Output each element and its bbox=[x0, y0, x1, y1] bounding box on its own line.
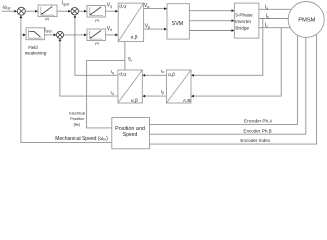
wire V_beta bbox=[144, 28, 165, 30]
svg-text:α,β: α,β bbox=[168, 72, 175, 78]
arrow SVM out1 into bridge bbox=[232, 9, 235, 12]
wire SVM out1 bbox=[189, 10, 231, 12]
wire tap Ib down bbox=[194, 19, 263, 76]
svg-text:θe: θe bbox=[128, 57, 132, 63]
wire mechanical speed feedback bbox=[21, 18, 112, 142]
svg-text:Position and: Position and bbox=[115, 126, 145, 132]
wire field weakening input stub bbox=[21, 34, 24, 36]
arrow SVM out3 into bridge bbox=[232, 29, 235, 32]
arrow S1 up from speed feedback bbox=[20, 15, 23, 18]
svg-text:α,β: α,β bbox=[131, 34, 138, 40]
wire current Ia bbox=[259, 8, 291, 10]
svg-text:d,q: d,q bbox=[119, 72, 126, 78]
wire current Ic bbox=[259, 27, 290, 29]
arrow Vbeta into SVM bbox=[164, 28, 167, 31]
block PI_q current controller bbox=[87, 6, 106, 18]
arrow into FW bbox=[23, 34, 26, 37]
svg-text:SVM: SVM bbox=[172, 21, 184, 27]
svg-text:3-Phase: 3-Phase bbox=[235, 12, 253, 18]
arrow Vd into inverse Park bbox=[115, 34, 118, 37]
svg-text:Field: Field bbox=[28, 45, 38, 50]
wire Park Iq to S2 bbox=[75, 18, 118, 75]
wire SVM out3 bbox=[189, 30, 231, 32]
wire V_alpha bbox=[144, 8, 165, 10]
arrow SVM out2 into bridge bbox=[232, 19, 235, 22]
svg-text:PI: PI bbox=[95, 18, 99, 23]
wire omega_ref input bbox=[2, 10, 15, 12]
wire current Ib bbox=[259, 18, 288, 20]
wire S2 to PI_q bbox=[78, 10, 84, 12]
svg-text:Inverter: Inverter bbox=[235, 19, 252, 25]
block PI_d current controller bbox=[87, 29, 106, 41]
block field weakening bbox=[26, 28, 45, 40]
wire tap Ic down bbox=[194, 28, 282, 96]
arrow into S1 bbox=[14, 10, 17, 13]
arrow into S3 bbox=[54, 34, 57, 37]
svg-text:Bridge: Bridge bbox=[235, 26, 249, 32]
svg-text:[θe]: [θe] bbox=[74, 121, 80, 127]
arrow S2 up from Iq feedback bbox=[74, 15, 77, 18]
wire SVM out2 bbox=[189, 20, 231, 22]
arrow into PI_d bbox=[84, 34, 87, 37]
wire Clarke to Park Ialpha bbox=[145, 74, 166, 76]
block 3-phase inverter bridge bbox=[234, 3, 259, 38]
wire Park Id to S3 bbox=[60, 41, 118, 96]
wire theta_e vertical between transforms bbox=[124, 42, 126, 70]
block SVM bbox=[167, 4, 189, 39]
arrow into PI1 bbox=[35, 10, 38, 13]
wire Clarke to Park Ibeta bbox=[145, 95, 166, 97]
summing junction S1 bbox=[17, 7, 25, 15]
svg-text:Encoder Ph.A: Encoder Ph.A bbox=[244, 118, 273, 123]
svg-text:PMSM: PMSM bbox=[298, 18, 315, 24]
motor PMSM bbox=[288, 2, 324, 38]
wire FW to S3 bbox=[45, 34, 55, 36]
arrow into PI_q bbox=[84, 10, 87, 13]
svg-text:Encoder Ph.B: Encoder Ph.B bbox=[243, 128, 271, 133]
arrow Valpha into SVM bbox=[164, 7, 167, 10]
arrow Ibeta into Park bbox=[142, 95, 145, 98]
arrow Ialpha into Park bbox=[142, 74, 145, 77]
wire PI1 to S2 bbox=[57, 10, 69, 12]
wire PI_q to inverse Park Vq bbox=[106, 10, 116, 12]
arrow Vq into inverse Park bbox=[115, 10, 118, 13]
arrow into S2 bbox=[68, 10, 71, 13]
block PI1 speed controller bbox=[38, 5, 57, 17]
block Park alpha-beta to dq bbox=[118, 70, 142, 103]
svg-text:Encoder Index: Encoder Index bbox=[240, 138, 270, 143]
wire encoder phase B bbox=[150, 38, 306, 135]
wire S1 to PI1 bbox=[25, 10, 34, 12]
svg-text:Speed: Speed bbox=[123, 132, 138, 138]
svg-text:A,B: A,B bbox=[183, 98, 191, 104]
summing junction S3 bbox=[57, 31, 64, 38]
svg-text:d,q: d,q bbox=[119, 4, 126, 10]
svg-text:weakening: weakening bbox=[25, 51, 47, 56]
block position and speed bbox=[112, 118, 150, 149]
summing junction S2 bbox=[71, 8, 78, 15]
svg-text:PI: PI bbox=[95, 41, 99, 46]
arrowheads bbox=[14, 7, 234, 97]
wire PI_d to inverse Park Vd bbox=[106, 34, 116, 36]
arrow Ic tap into Clarke bbox=[191, 95, 194, 98]
svg-text:PI: PI bbox=[45, 17, 49, 22]
wire encoder index bbox=[150, 35, 317, 145]
block Clarke AB to alpha-beta bbox=[167, 70, 192, 103]
wire encoder phase A bbox=[150, 36, 298, 125]
svg-text:α,β: α,β bbox=[131, 98, 138, 104]
svg-text:Mechanical Speed (ωm): Mechanical Speed (ωm) bbox=[55, 136, 108, 142]
svg-text:Position: Position bbox=[70, 116, 84, 121]
wire theta_e distribution bbox=[87, 60, 125, 128]
wire S3 to PI_d bbox=[64, 34, 85, 36]
arrow S3 up from Id feedback bbox=[59, 38, 62, 41]
arrow Ib tap into Clarke bbox=[191, 74, 194, 77]
block inverse Park dq to alpha-beta bbox=[118, 3, 143, 42]
svg-text:Electrical: Electrical bbox=[69, 111, 85, 116]
